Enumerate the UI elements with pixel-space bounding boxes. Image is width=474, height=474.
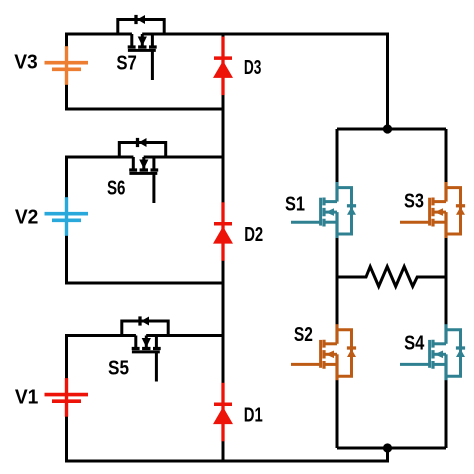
diode D3 <box>213 37 233 96</box>
wire S5 row / V1 loop and bottom wire <box>67 336 388 462</box>
battery V3 <box>45 46 89 85</box>
diode D2 <box>213 202 233 260</box>
wire S6 row / V2 loop <box>67 157 224 283</box>
MOSFET S3 <box>400 182 465 238</box>
MOSFET S7 <box>112 15 168 80</box>
svg-text:D2: D2 <box>244 224 263 246</box>
junction node bottom <box>383 443 392 452</box>
battery V1 <box>45 378 89 417</box>
wire top loop: V3 left lead, top rail to H-bridge feed corner <box>67 34 388 129</box>
wire H-bridge bottom rail <box>337 447 446 450</box>
svg-text:S3: S3 <box>404 191 424 213</box>
svg-text:V2: V2 <box>15 206 39 228</box>
svg-text:S4: S4 <box>404 333 425 355</box>
wire left leg segments <box>336 129 339 448</box>
junction node top <box>383 124 392 133</box>
svg-text:D1: D1 <box>244 404 263 426</box>
MOSFET S6 <box>114 138 170 203</box>
MOSFET S2 <box>291 324 356 380</box>
svg-text:S1: S1 <box>285 194 305 216</box>
MOSFET S5 <box>116 316 172 381</box>
MOSFET S1 <box>291 182 356 238</box>
svg-text:S2: S2 <box>294 324 313 346</box>
wire H-bridge top rail <box>337 128 446 131</box>
wire right leg segments <box>445 129 448 448</box>
svg-text:V3: V3 <box>14 52 38 74</box>
svg-text:S7: S7 <box>116 52 137 74</box>
svg-text:D3: D3 <box>244 57 262 79</box>
MOSFET S4 <box>400 324 465 380</box>
diode D1 <box>213 383 233 442</box>
svg-text:V1: V1 <box>15 387 39 409</box>
battery V2 <box>45 197 89 236</box>
wire middle diode column <box>222 34 225 461</box>
svg-text:S5: S5 <box>108 358 129 380</box>
resistor load <box>337 267 446 287</box>
svg-text:S6: S6 <box>107 177 126 199</box>
